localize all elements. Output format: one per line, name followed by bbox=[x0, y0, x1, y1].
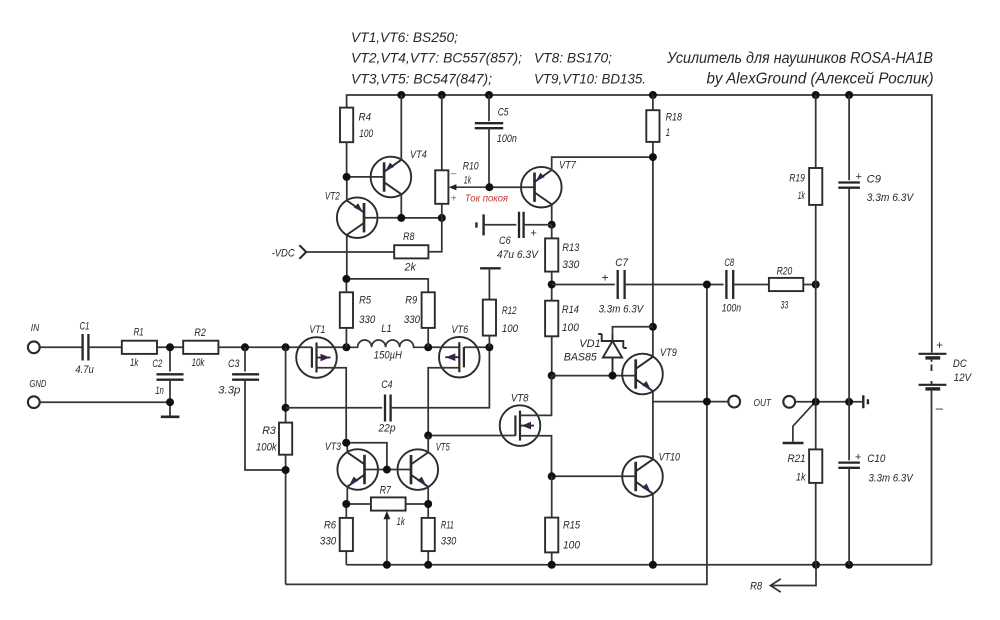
R14 value 100 bbox=[562, 322, 580, 334]
resistor R3 bbox=[279, 423, 292, 455]
C1 label bbox=[80, 320, 90, 332]
svg-text:Ток покоя: Ток покоя bbox=[465, 194, 509, 205]
wire bus into R5 bbox=[345, 279, 347, 292]
resistor R15 bbox=[545, 518, 558, 553]
svg-text:+: + bbox=[936, 340, 943, 352]
R15 label bbox=[563, 519, 581, 531]
svg-text:330: 330 bbox=[320, 536, 337, 548]
Tok pokoya red note bbox=[465, 194, 509, 205]
R4 value 100 bbox=[359, 128, 373, 140]
wire node A down to C2 bbox=[169, 347, 171, 371]
-VDC label bbox=[272, 247, 295, 259]
capacitor C7 bbox=[618, 270, 625, 299]
wire VT6 source down to VT5 collector bbox=[428, 368, 459, 436]
wire R15 to bottom bus bbox=[551, 552, 553, 564]
svg-text:DC: DC bbox=[953, 358, 967, 370]
wire top bus to R18 bbox=[652, 95, 654, 110]
wire OUT node to VT10 collector bbox=[652, 402, 654, 460]
svg-text:C1: C1 bbox=[80, 320, 90, 332]
svg-text:R9: R9 bbox=[405, 294, 417, 306]
resistor R20 bbox=[769, 278, 803, 291]
svg-text:R3: R3 bbox=[262, 425, 277, 437]
svg-text:1k: 1k bbox=[397, 516, 406, 528]
svg-text:+: + bbox=[451, 194, 457, 205]
wire R13 to R14 with node bbox=[551, 272, 553, 301]
R8 label bbox=[403, 231, 415, 243]
junction dots output coupling bbox=[703, 281, 820, 289]
R11 value 330 bbox=[441, 536, 457, 548]
title line 1 bbox=[666, 50, 933, 67]
resistor R6 bbox=[340, 518, 353, 551]
VT2 label bbox=[325, 190, 340, 202]
svg-text:100: 100 bbox=[563, 539, 581, 551]
wire jack node to R21 bbox=[815, 402, 817, 450]
wire C3 to feedback node bbox=[245, 380, 286, 470]
resistor R13 bbox=[545, 238, 558, 271]
wire VT4 emitter to top bus bbox=[400, 95, 402, 160]
wire R14 to VT9 base node bbox=[551, 336, 553, 375]
svg-text:R1: R1 bbox=[134, 327, 144, 339]
C4 value 22p bbox=[378, 422, 396, 434]
wire VT9 emitter to OUT node bbox=[652, 391, 654, 402]
wire VT2 base to VT4 collector node bbox=[364, 217, 401, 219]
svg-text:L1: L1 bbox=[381, 323, 392, 335]
wire top bus to C9 bbox=[848, 95, 850, 180]
svg-text:VT9: VT9 bbox=[660, 347, 677, 359]
svg-text:BAS85: BAS85 bbox=[564, 352, 598, 364]
capacitor C8 bbox=[726, 270, 733, 299]
svg-text:330: 330 bbox=[404, 314, 421, 326]
wire top bus to R19 bbox=[815, 95, 817, 168]
C4 label bbox=[381, 379, 392, 391]
wire R20 to R19 line bbox=[803, 284, 815, 286]
wire R5 R9 top bus bbox=[346, 279, 428, 292]
wire VT1 drain stub to node bbox=[317, 346, 347, 348]
svg-text:100n: 100n bbox=[722, 303, 741, 315]
annotation line 3b bbox=[534, 72, 646, 87]
wire C1 to R1 bbox=[88, 346, 121, 348]
transistor VT6 bbox=[439, 337, 480, 378]
-VDC chevron bbox=[299, 245, 306, 259]
R4 label bbox=[359, 112, 372, 124]
R10 plus mark bbox=[451, 194, 457, 205]
wire R4 to VT2 emitter node bbox=[346, 142, 348, 177]
annotation line 3a bbox=[351, 72, 492, 87]
annotation line 1 bbox=[351, 30, 458, 45]
capacitor C9 bbox=[838, 183, 860, 188]
R5 label bbox=[359, 294, 372, 306]
capacitor C2 bbox=[157, 374, 184, 379]
trimmer R10 bbox=[435, 170, 448, 204]
svg-text:3.3m 6.3V: 3.3m 6.3V bbox=[869, 473, 915, 485]
svg-text:R19: R19 bbox=[789, 172, 805, 184]
junction dot OUT line bbox=[703, 398, 711, 406]
VT6 label bbox=[451, 324, 469, 336]
wire R21 to bottom bus bbox=[815, 483, 817, 565]
junction dot R5 bus bbox=[342, 275, 350, 283]
svg-text:VT5: VT5 bbox=[436, 441, 451, 453]
VT5 label bbox=[436, 441, 451, 453]
wire VT6 drain stub to node bbox=[428, 346, 459, 348]
wire C2 to GND rail bbox=[169, 380, 171, 402]
VD1 label bbox=[579, 338, 600, 350]
wire VT9 base node bbox=[552, 375, 636, 377]
wire R19 to R20 node bbox=[815, 205, 817, 285]
svg-text:1k: 1k bbox=[464, 175, 472, 187]
svg-text:VT8: BS170;: VT8: BS170; bbox=[534, 51, 612, 66]
C7 value bbox=[599, 303, 645, 315]
wire C5 to wiper node bbox=[488, 128, 490, 187]
rail tap left of C6 bbox=[476, 214, 483, 235]
svg-text:VT2,VT4,VT7: BC557(857);: VT2,VT4,VT7: BC557(857); bbox=[351, 51, 522, 66]
svg-text:3.3m 6.3V: 3.3m 6.3V bbox=[599, 303, 645, 315]
resistor R8 bbox=[394, 245, 428, 258]
wire bottom ground bus bbox=[346, 564, 931, 566]
C8 value 100n bbox=[722, 303, 741, 315]
trimmer R7 bbox=[371, 497, 406, 510]
VT10 label bbox=[659, 452, 681, 464]
wire R7 to VT5 emitter bbox=[406, 503, 429, 505]
wire VT7 collector down bbox=[551, 204, 553, 224]
junction dots R3 bbox=[282, 404, 290, 474]
R12 value 100 bbox=[502, 323, 519, 335]
svg-text:+: + bbox=[855, 171, 862, 183]
OUT label bbox=[754, 397, 773, 409]
C9 plus sign bbox=[855, 171, 862, 183]
junctions on top bus bbox=[397, 91, 853, 99]
wire down to ground symbol bbox=[169, 402, 171, 415]
svg-text:1k: 1k bbox=[798, 190, 805, 202]
L1 label bbox=[381, 323, 392, 335]
GND label bbox=[29, 379, 46, 390]
svg-text:R6: R6 bbox=[324, 519, 337, 531]
svg-text:by AlexGround (Алексей Рослик): by AlexGround (Алексей Рослик) bbox=[707, 71, 934, 88]
wire VT5 emitter down bbox=[427, 487, 429, 504]
junction dots R18 line bbox=[649, 153, 657, 331]
junction dots VT3 VT5 bbox=[342, 439, 391, 474]
wire VT3 collector to base node bbox=[346, 443, 387, 470]
svg-text:VT7: VT7 bbox=[559, 160, 577, 172]
wire node to R11 bbox=[427, 504, 429, 518]
C3 label bbox=[228, 358, 240, 370]
R19 label bbox=[789, 172, 805, 184]
wire R2 to VT1 gate bbox=[218, 346, 312, 348]
wire wiper node to VT7 base bbox=[489, 186, 534, 188]
wire C8 to R20 bbox=[733, 284, 769, 286]
resistor R19 bbox=[809, 168, 822, 205]
C10 label bbox=[867, 453, 886, 465]
svg-text:-VDC: -VDC bbox=[272, 247, 295, 259]
svg-text:1k: 1k bbox=[130, 357, 139, 369]
transistor VT1 bbox=[296, 337, 337, 378]
VT3 label bbox=[325, 441, 342, 453]
wire R11 to bottom bus bbox=[427, 551, 429, 565]
battery DC 12V bbox=[919, 354, 947, 389]
svg-text:R8: R8 bbox=[750, 581, 763, 593]
svg-text:GND: GND bbox=[29, 379, 46, 390]
svg-text:3.3m 6.3V: 3.3m 6.3V bbox=[867, 192, 915, 204]
capacitor C6 bbox=[519, 212, 524, 238]
svg-text:R20: R20 bbox=[777, 265, 793, 277]
junction dots VT8 bbox=[424, 432, 556, 481]
transistor VT10 bbox=[622, 456, 663, 497]
resistor R14 bbox=[545, 301, 558, 337]
R7 wiper arrow bbox=[384, 511, 391, 565]
svg-text:R14: R14 bbox=[562, 304, 579, 316]
wire node to R10 bottom bbox=[401, 217, 442, 219]
wire VT7 emitter to R18 node bbox=[552, 157, 653, 170]
svg-text:+: + bbox=[855, 452, 862, 464]
svg-text:12V: 12V bbox=[954, 372, 973, 384]
junction dots R13 R14 bbox=[548, 281, 556, 380]
wire R9 to VT6 node bbox=[427, 328, 429, 347]
annotation line 2b bbox=[534, 51, 612, 66]
R3 value 100k bbox=[256, 442, 277, 454]
battery minus bbox=[935, 401, 944, 416]
R10 minus mark bbox=[450, 169, 457, 180]
resistor R2 bbox=[183, 341, 218, 354]
wire R3 to feedback rail bbox=[285, 455, 287, 585]
R3 label bbox=[262, 425, 277, 437]
wire R6 to bottom bus bbox=[345, 551, 347, 565]
svg-text:OUT: OUT bbox=[754, 397, 773, 409]
svg-text:2k: 2k bbox=[404, 261, 417, 273]
R11 label bbox=[441, 519, 454, 531]
svg-text:IN: IN bbox=[31, 323, 40, 334]
transistor VT2 bbox=[337, 197, 378, 238]
svg-text:–: – bbox=[450, 169, 457, 180]
wire R1 to R2 with node bbox=[157, 346, 183, 348]
transistor VT7 bbox=[521, 167, 562, 208]
svg-text:10k: 10k bbox=[192, 357, 205, 369]
junction dot VT7 collector bbox=[548, 221, 556, 229]
svg-text:330: 330 bbox=[359, 314, 376, 326]
svg-text:R8: R8 bbox=[403, 231, 415, 243]
resistor R1 bbox=[122, 341, 157, 354]
wire VT2 collector down bbox=[346, 235, 348, 279]
svg-text:C2: C2 bbox=[152, 358, 162, 370]
wire top bus to C5 bbox=[488, 95, 490, 121]
C2 value 1n bbox=[155, 385, 164, 397]
wire VT8 gate from VT5 node bbox=[428, 435, 515, 437]
svg-text:1k: 1k bbox=[796, 471, 806, 483]
svg-text:VT1,VT6: BS250;: VT1,VT6: BS250; bbox=[351, 30, 458, 45]
svg-text:R13: R13 bbox=[562, 242, 580, 254]
ground symbol below C2 bbox=[161, 415, 180, 418]
capacitor C5 bbox=[475, 123, 503, 128]
junction dot VD1 anode bbox=[609, 372, 617, 380]
jack terminal bbox=[783, 396, 795, 408]
wire top bus to R10 bbox=[441, 95, 443, 170]
resistor R4 bbox=[340, 108, 353, 143]
wire battery minus to bottom bus bbox=[931, 391, 933, 565]
wire R8 right up to node bbox=[428, 218, 441, 252]
svg-text:22p: 22p bbox=[378, 422, 396, 434]
rail tap right of jack bbox=[863, 395, 868, 408]
wire VT8 drain up to node bbox=[520, 376, 552, 416]
wire VT1 gate node down to R3 bbox=[285, 347, 287, 422]
wire VT3 emitter to R7 bbox=[346, 503, 371, 505]
resistor R12 bbox=[483, 300, 496, 336]
C3 value 3.3p bbox=[218, 385, 240, 397]
svg-text:R21: R21 bbox=[788, 453, 806, 465]
R20 value 33 bbox=[781, 299, 789, 311]
wire VT3 emitter down bbox=[346, 486, 348, 504]
wire R12 to VT6 gate node bbox=[488, 336, 490, 348]
resistor R21 bbox=[809, 449, 822, 483]
transistor VT3 bbox=[337, 449, 378, 490]
R18 label bbox=[666, 112, 683, 124]
R6 value 330 bbox=[320, 536, 337, 548]
R7 label bbox=[380, 485, 392, 497]
junctions on bottom bus bbox=[383, 561, 853, 569]
svg-text:VT3,VT5: BC547(847);: VT3,VT5: BC547(847); bbox=[351, 72, 492, 87]
junction dots input section bbox=[166, 343, 290, 406]
svg-text:R15: R15 bbox=[563, 519, 581, 531]
R5 value 330 bbox=[359, 314, 376, 326]
wire VT3 collector exit bbox=[346, 443, 348, 453]
resistor R5 bbox=[340, 292, 353, 328]
svg-text:4.7u: 4.7u bbox=[75, 364, 93, 376]
wire VT4 collector down bbox=[400, 194, 402, 218]
svg-text:3.3p: 3.3p bbox=[218, 385, 240, 397]
C6 value bbox=[497, 249, 540, 261]
R15 value 100 bbox=[563, 539, 581, 551]
R2 value 10k bbox=[192, 357, 205, 369]
wire VT4 base to node bbox=[347, 176, 385, 178]
junction dots R7 row bbox=[342, 500, 432, 508]
R14 label bbox=[562, 304, 579, 316]
wire IN to C1 bbox=[40, 346, 83, 348]
C9 value bbox=[867, 192, 915, 204]
wire node to R15 bbox=[551, 476, 553, 517]
svg-text:C6: C6 bbox=[499, 235, 511, 247]
R13 value 330 bbox=[562, 259, 580, 271]
wire VD1 branch from R18 line bbox=[613, 327, 653, 334]
wire R18 node down to VT9 collector bbox=[652, 157, 654, 358]
IN terminal bbox=[28, 341, 40, 353]
wire VT1 source down to VT3 collector bbox=[317, 368, 347, 443]
R9 label bbox=[405, 294, 417, 306]
R20 label bbox=[777, 265, 793, 277]
C10 plus sign bbox=[855, 452, 862, 464]
diode VD1 bbox=[598, 333, 627, 375]
wire C4 to VT6 gate node bbox=[391, 347, 490, 407]
C6 plus sign bbox=[530, 227, 537, 239]
wire VT5 collector up bbox=[427, 436, 429, 453]
R19 value 1k bbox=[798, 190, 805, 202]
junction dots R10 wiper bbox=[485, 183, 493, 191]
wire R13 R14 node to C7 bbox=[552, 284, 615, 286]
svg-text:C3: C3 bbox=[228, 358, 240, 370]
inductor L1 bbox=[346, 340, 428, 347]
wire GND terminal to node bbox=[40, 401, 170, 403]
C9 label bbox=[867, 174, 881, 186]
svg-text:VT3: VT3 bbox=[325, 441, 342, 453]
R1 value 1k bbox=[130, 357, 139, 369]
svg-text:C8: C8 bbox=[724, 257, 734, 269]
wire rail tap to R12 bbox=[488, 268, 490, 299]
C6 label bbox=[499, 235, 511, 247]
resistor R11 bbox=[422, 518, 435, 551]
C7 plus sign bbox=[601, 270, 608, 284]
R21 value 1k bbox=[796, 471, 806, 483]
svg-text:R11: R11 bbox=[441, 519, 454, 531]
junction dots jack line bbox=[812, 398, 853, 406]
C5 value 100n bbox=[497, 133, 517, 145]
svg-text:VT10: VT10 bbox=[659, 452, 681, 464]
wire top supply bus bbox=[347, 95, 932, 353]
transistor VT5 bbox=[398, 449, 439, 490]
capacitor C4 bbox=[385, 395, 391, 422]
R21 label bbox=[788, 453, 806, 465]
svg-text:100: 100 bbox=[502, 323, 519, 335]
R1 label bbox=[134, 327, 144, 339]
svg-text:VD1: VD1 bbox=[579, 338, 600, 350]
capacitor C1 bbox=[83, 334, 89, 361]
VT8 label bbox=[511, 393, 529, 405]
C5 label bbox=[498, 107, 509, 119]
wire feedback rail to output node bbox=[286, 285, 707, 585]
svg-text:R10: R10 bbox=[463, 160, 480, 172]
VT4 label bbox=[410, 149, 427, 161]
svg-text:1n: 1n bbox=[155, 385, 164, 397]
svg-text:100: 100 bbox=[359, 128, 373, 140]
svg-text:150µH: 150µH bbox=[374, 350, 402, 362]
VT1 label bbox=[309, 324, 325, 336]
wire C9 to jack node bbox=[848, 188, 850, 402]
R8 value 2k bbox=[404, 261, 417, 273]
svg-text:R12: R12 bbox=[502, 305, 517, 317]
svg-text:C10: C10 bbox=[867, 453, 886, 465]
svg-text:47u 6.3V: 47u 6.3V bbox=[497, 249, 540, 261]
svg-text:R5: R5 bbox=[359, 294, 372, 306]
resistor R18 bbox=[646, 110, 659, 142]
GND terminal bbox=[28, 396, 40, 408]
wire VT6 gate to R12 node bbox=[464, 346, 490, 348]
wire rail tap to C6 bbox=[484, 224, 517, 226]
svg-text:C7: C7 bbox=[615, 257, 628, 269]
wire R5 to VT1 node bbox=[345, 328, 347, 347]
wire C10 to bottom bus bbox=[848, 468, 850, 565]
rail tap above R12 bbox=[480, 267, 501, 269]
R12 label bbox=[502, 305, 517, 317]
R8 net label bbox=[750, 581, 763, 593]
svg-text:VT4: VT4 bbox=[410, 149, 427, 161]
IN label bbox=[31, 323, 40, 334]
battery plus bbox=[936, 340, 943, 352]
wire node to R13 bbox=[551, 225, 553, 239]
VT7 label bbox=[559, 160, 577, 172]
C8 label bbox=[724, 257, 734, 269]
VT9 label bbox=[660, 347, 677, 359]
wire VT2 emitter up bbox=[346, 177, 348, 201]
svg-text:VT6: VT6 bbox=[451, 324, 469, 336]
svg-text:C5: C5 bbox=[498, 107, 509, 119]
R13 label bbox=[562, 242, 580, 254]
svg-text:100n: 100n bbox=[497, 133, 517, 145]
C10 value bbox=[869, 473, 915, 485]
svg-text:VT9,VT10: BD135.: VT9,VT10: BD135. bbox=[534, 72, 646, 87]
R10 wiper arrow bbox=[449, 184, 490, 190]
VD1 value BAS85 bbox=[564, 352, 598, 364]
svg-text:VT2: VT2 bbox=[325, 190, 340, 202]
battery DC label bbox=[953, 358, 967, 370]
svg-text:R2: R2 bbox=[194, 327, 205, 339]
transistor VT9 bbox=[622, 354, 663, 395]
C1 value 4.7u bbox=[75, 364, 93, 376]
wire jack node to C10 bbox=[848, 402, 850, 461]
